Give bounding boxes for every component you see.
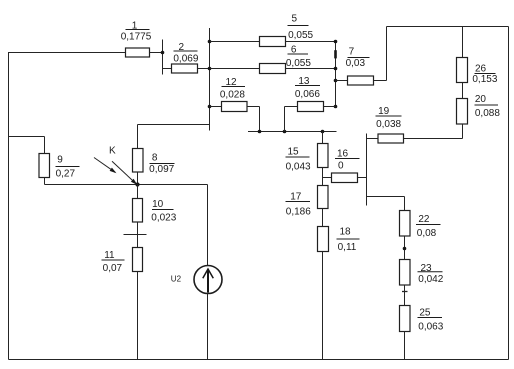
resistor R11 — [133, 248, 143, 272]
resistor R23 — [400, 260, 411, 286]
wire R25 to bottom bus — [404, 332, 406, 360]
wire chain to R16 — [323, 177, 332, 179]
svg-text:20: 20 — [475, 94, 487, 105]
wire R20 down to R19 level — [462, 124, 464, 139]
node A vertical stub — [162, 40, 164, 75]
wire node N horizontal — [45, 184, 208, 186]
svg-text:0,11: 0,11 — [338, 242, 357, 253]
svg-text:0,042: 0,042 — [418, 274, 443, 285]
svg-text:22: 22 — [418, 214, 430, 225]
resistor R10 — [133, 199, 143, 223]
node C thick mark — [334, 50, 337, 58]
svg-text:11: 11 — [104, 250, 115, 261]
wire R6 to node C — [286, 68, 336, 70]
svg-text:26: 26 — [475, 63, 487, 74]
junction dot bus B middle — [208, 67, 212, 71]
svg-text:0,028: 0,028 — [220, 90, 245, 101]
svg-text:17: 17 — [290, 191, 302, 202]
bus B vertical — [209, 28, 211, 131]
svg-text:0,27: 0,27 — [56, 169, 76, 180]
label R17 underline — [286, 201, 311, 203]
svg-text:0,023: 0,023 — [151, 213, 176, 224]
resistor R2 — [172, 64, 198, 73]
label R16 underline — [335, 158, 360, 160]
wire R9 top — [44, 137, 46, 154]
switch K arrow — [112, 161, 136, 183]
wire R19 right — [404, 138, 463, 140]
junction dot node N — [135, 182, 139, 186]
wire R8 top vertical — [137, 125, 139, 149]
wire top bus — [387, 26, 509, 28]
junction dot mid bus left — [258, 130, 262, 134]
node tap tick between R23 and R25 — [402, 291, 408, 293]
svg-text:18: 18 — [339, 227, 351, 238]
svg-text:0,055: 0,055 — [286, 58, 311, 69]
resistor R13 — [298, 102, 324, 112]
resistor R5 — [260, 37, 286, 47]
resistor R18 — [318, 227, 329, 252]
label R18 underline — [337, 238, 360, 240]
wire R5 to node C — [286, 41, 336, 43]
wire R15 to R17 — [322, 168, 324, 186]
wire mid bus to R15 — [322, 132, 324, 144]
label R13 underline — [295, 85, 320, 87]
resistor R22 — [400, 211, 411, 237]
label R15 underline — [286, 156, 310, 158]
resistor R19 — [378, 134, 404, 143]
wire current source top — [207, 185, 209, 266]
wire middle bus — [248, 131, 337, 133]
label R6 underline — [288, 53, 309, 55]
wire node A to R2 — [163, 68, 172, 70]
svg-text:0,069: 0,069 — [173, 54, 198, 65]
label R9 underline — [56, 166, 80, 168]
svg-text:0,07: 0,07 — [103, 263, 123, 274]
wire R8 top horizontal — [138, 124, 210, 126]
svg-text:0,088: 0,088 — [475, 108, 500, 119]
current source U2 circle — [194, 266, 222, 294]
wire R12 right — [247, 106, 260, 108]
wire R11 to bottom bus — [137, 272, 139, 360]
wire R1 to node A — [150, 52, 163, 54]
node C vertical — [335, 42, 337, 107]
node A junction dot — [161, 51, 165, 55]
resistor R8 — [133, 149, 144, 173]
svg-text:0,08: 0,08 — [417, 228, 437, 239]
wire R19 left to node G — [367, 138, 379, 140]
svg-text:0,066: 0,066 — [295, 89, 320, 100]
junction dot bus B lower — [208, 105, 212, 109]
wire R12 leg down — [259, 107, 261, 132]
wire bus B to R5 — [210, 41, 260, 43]
svg-text:0,063: 0,063 — [418, 321, 443, 332]
svg-text:0,186: 0,186 — [286, 206, 311, 217]
wire R22 to R23 — [404, 236, 406, 260]
wire R16 to node G — [358, 177, 367, 179]
svg-text:9: 9 — [57, 155, 63, 166]
current source U2 arrowhead — [203, 269, 214, 278]
switch K blade arrowhead — [110, 168, 117, 174]
wire node N to R10 — [137, 185, 139, 199]
svg-text:0,03: 0,03 — [346, 58, 366, 69]
label R25 underline — [418, 317, 443, 319]
wire R26 to R20 — [462, 83, 464, 99]
wire R17 to R18 — [322, 209, 324, 227]
label R10 underline — [152, 209, 174, 211]
wire R8 bottom — [137, 172, 139, 185]
wire node C to R7 — [336, 80, 348, 82]
wire R13 leg down — [284, 107, 286, 132]
wire bottom bus — [9, 359, 509, 361]
junction dot mid bus center — [283, 130, 287, 134]
wire R13 left — [285, 106, 298, 108]
resistor R26 — [457, 58, 468, 83]
svg-text:16: 16 — [337, 148, 349, 159]
svg-text:0,038: 0,038 — [376, 119, 401, 130]
resistor R20 — [457, 99, 468, 125]
wire R7 to corner D — [374, 80, 387, 82]
wire left bus to R9 — [9, 136, 45, 138]
svg-text:0,055: 0,055 — [288, 30, 313, 41]
junction dot between R22 and R23 — [403, 247, 407, 251]
resistor R17 — [318, 186, 329, 209]
switch K arrowhead — [131, 179, 138, 185]
junction dot bus B top — [208, 40, 212, 44]
svg-text:7: 7 — [349, 46, 355, 57]
label R20 underline — [475, 104, 499, 106]
junction dot C2 — [334, 67, 338, 71]
node tap tick between R10 and R11 — [124, 234, 147, 236]
label R19 underline — [376, 115, 402, 117]
wire R23 to R25 — [404, 285, 406, 306]
svg-text:10: 10 — [152, 199, 164, 210]
resistor R7 — [348, 76, 374, 85]
resistor R25 — [400, 306, 411, 332]
svg-text:8: 8 — [152, 153, 158, 164]
svg-text:19: 19 — [378, 106, 390, 117]
wire R9 bottom — [44, 178, 46, 185]
label R11 underline — [102, 259, 125, 261]
label R5 underline — [288, 25, 309, 27]
wire top bus to R26 — [462, 27, 464, 58]
wire bus B to R6 — [210, 68, 260, 70]
wire R10 to R11 — [137, 222, 139, 248]
wire R13 right to node C — [324, 106, 336, 108]
wire current source bottom — [207, 294, 209, 360]
svg-text:U2: U2 — [171, 275, 182, 284]
node G vertical — [366, 134, 368, 206]
junction dot C1 — [334, 40, 338, 44]
label R22 underline — [416, 224, 441, 226]
resistor R9 — [39, 154, 50, 178]
svg-text:0,097: 0,097 — [149, 164, 174, 175]
junction dot C4 — [334, 105, 338, 109]
svg-text:25: 25 — [419, 307, 431, 318]
svg-text:0,153: 0,153 — [472, 74, 497, 85]
label R8 underline — [150, 163, 175, 165]
switch K blade — [94, 158, 115, 173]
label R26 underline — [475, 73, 496, 75]
wire R2 to bus B — [198, 68, 210, 70]
svg-text:0,1775: 0,1775 — [121, 31, 152, 42]
wire R18 to bottom bus — [322, 252, 324, 360]
junction dot C3 — [334, 79, 338, 83]
label R12 underline — [222, 86, 246, 88]
label R2 underline — [174, 50, 198, 52]
wire top-left horizontal — [9, 52, 126, 54]
wire chain H to R22 — [404, 197, 406, 211]
svg-text:0,043: 0,043 — [286, 162, 311, 173]
wire right vertical bus — [508, 27, 510, 360]
junction dot mid bus right — [321, 130, 325, 134]
svg-text:K: K — [109, 145, 116, 156]
wire bus B to R12 — [210, 106, 222, 108]
resistor R16 — [332, 173, 358, 183]
resistor R12 — [222, 102, 248, 112]
label R1 underline — [126, 29, 150, 31]
svg-text:15: 15 — [287, 147, 299, 158]
resistor R15 — [318, 144, 329, 168]
current source U2 arrow shaft — [207, 270, 209, 293]
wire corner D vertical — [386, 27, 388, 81]
label R7 underline — [348, 57, 370, 59]
wire left vertical bus — [8, 52, 10, 360]
resistor R1 — [126, 48, 150, 57]
svg-text:5: 5 — [292, 14, 298, 25]
svg-text:0: 0 — [338, 161, 344, 172]
label R23 underline — [418, 271, 443, 273]
resistor R6 — [260, 64, 286, 74]
wire node G to chain H — [367, 196, 405, 198]
